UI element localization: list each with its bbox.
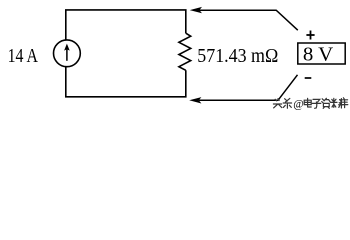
char liao [331, 98, 343, 108]
current source I1 circle [54, 40, 81, 67]
svg-text:571.43 mΩ: 571.43 mΩ [197, 45, 278, 67]
wire: right lower + bottom + left lower segment of loop [66, 67, 186, 97]
watermark text (CJK drawn as strokes) [273, 98, 347, 109]
resistor R1 zigzag [179, 33, 191, 70]
svg-text:@: @ [293, 98, 304, 110]
char dian [304, 98, 311, 107]
minus sign [305, 77, 312, 79]
char zi2 [322, 98, 330, 108]
char zi [312, 99, 321, 108]
plus sign [306, 31, 314, 40]
svg-text:8 V: 8 V [303, 44, 334, 66]
annotation arrow to bottom wire (- terminal) [189, 75, 297, 104]
char ku [339, 98, 348, 108]
annotation arrow to top wire (+ terminal) [190, 7, 298, 30]
voltmeter box [298, 43, 345, 64]
current source arrow (points up) [64, 44, 70, 61]
wire: left + top + right upper segment of loop [66, 10, 186, 40]
svg-text:14 A: 14 A [8, 45, 39, 67]
char tiao [283, 98, 291, 108]
char tou [273, 99, 281, 108]
